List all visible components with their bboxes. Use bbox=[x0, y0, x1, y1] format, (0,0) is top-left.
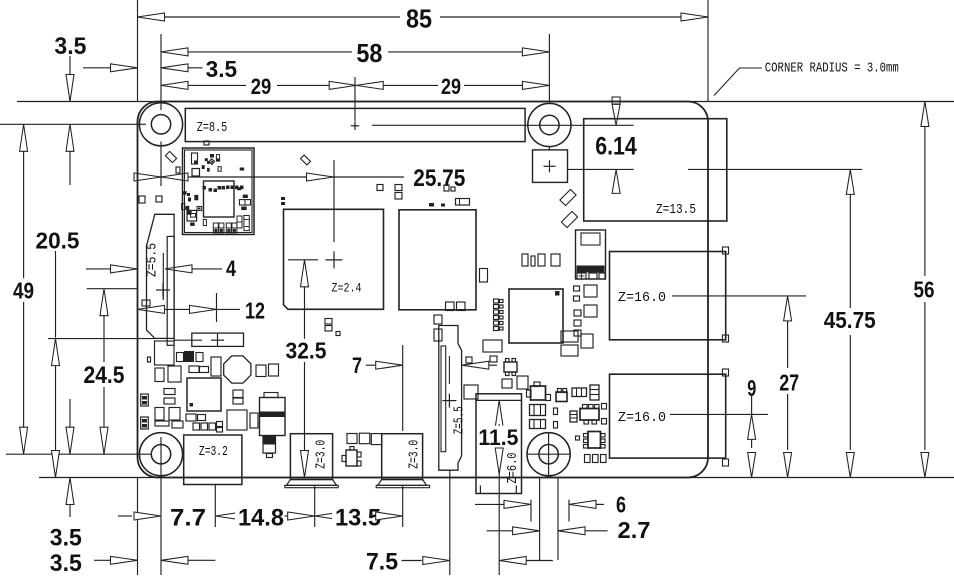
svg-text:7.7: 7.7 bbox=[170, 504, 206, 531]
svg-text:49: 49 bbox=[13, 277, 34, 303]
svg-text:2.7: 2.7 bbox=[618, 517, 651, 543]
svg-text:Z=2.4: Z=2.4 bbox=[332, 280, 362, 295]
svg-text:29: 29 bbox=[441, 74, 461, 99]
svg-text:45.75: 45.75 bbox=[824, 307, 876, 333]
svg-text:14.8: 14.8 bbox=[238, 504, 284, 531]
svg-text:Z=16.0: Z=16.0 bbox=[618, 291, 666, 306]
svg-text:25.75: 25.75 bbox=[413, 165, 465, 192]
svg-text:58: 58 bbox=[356, 38, 382, 68]
svg-text:7.5: 7.5 bbox=[366, 548, 398, 575]
svg-text:85: 85 bbox=[406, 3, 432, 33]
svg-text:6.14: 6.14 bbox=[595, 133, 637, 161]
svg-text:3.5: 3.5 bbox=[206, 56, 238, 82]
svg-text:Z=13.5: Z=13.5 bbox=[656, 203, 696, 218]
svg-text:4: 4 bbox=[226, 256, 236, 281]
svg-text:Z=16.0: Z=16.0 bbox=[618, 411, 666, 426]
svg-text:13.5: 13.5 bbox=[335, 504, 381, 531]
svg-text:CORNER RADIUS = 3.0mm: CORNER RADIUS = 3.0mm bbox=[765, 61, 899, 77]
svg-text:24.5: 24.5 bbox=[84, 362, 125, 389]
svg-text:32.5: 32.5 bbox=[286, 337, 327, 363]
svg-text:3.5: 3.5 bbox=[50, 525, 82, 552]
svg-text:12: 12 bbox=[245, 298, 265, 324]
svg-text:6: 6 bbox=[616, 491, 626, 517]
svg-text:29: 29 bbox=[251, 74, 272, 99]
svg-text:Z=3.2: Z=3.2 bbox=[199, 445, 228, 460]
svg-text:Z=8.5: Z=8.5 bbox=[197, 121, 228, 136]
svg-text:Z=3.0: Z=3.0 bbox=[407, 440, 422, 469]
svg-text:11.5: 11.5 bbox=[478, 425, 518, 450]
svg-text:27: 27 bbox=[779, 369, 799, 395]
svg-text:7: 7 bbox=[352, 353, 362, 378]
svg-text:3.5: 3.5 bbox=[50, 550, 82, 577]
svg-text:20.5: 20.5 bbox=[36, 227, 80, 253]
svg-text:Z=5.5: Z=5.5 bbox=[146, 243, 161, 277]
svg-text:Z=5.5: Z=5.5 bbox=[452, 406, 467, 434]
svg-text:Z=6.0: Z=6.0 bbox=[506, 453, 521, 484]
svg-text:Z=3.0: Z=3.0 bbox=[315, 440, 330, 469]
svg-text:56: 56 bbox=[914, 277, 935, 303]
